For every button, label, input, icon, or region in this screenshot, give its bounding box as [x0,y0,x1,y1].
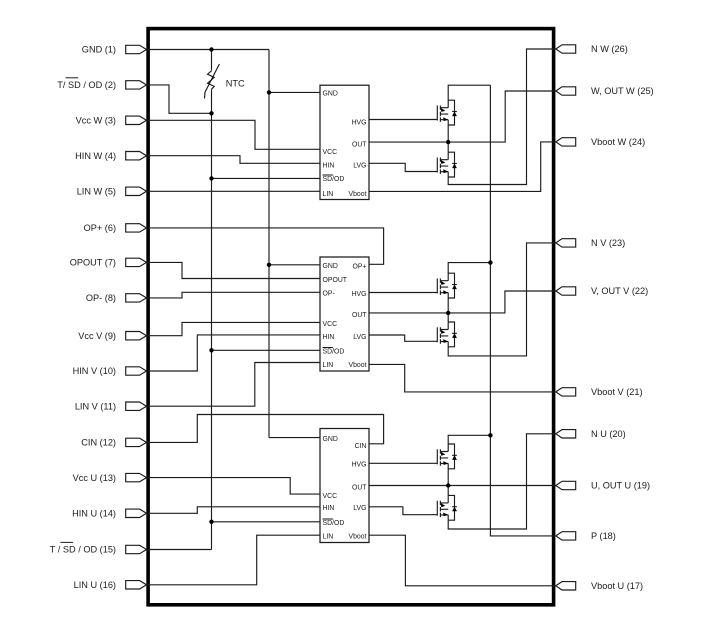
svg-text:SD/OD: SD/OD [323,520,345,527]
svg-text:LIN U (16): LIN U (16) [74,580,116,590]
svg-text:HVG: HVG [352,291,367,298]
svg-text:OUT: OUT [352,142,367,149]
svg-text:Vboot: Vboot [348,534,366,541]
svg-text:OUT: OUT [352,312,367,319]
wire Q6 source to pin 20 N U [448,434,556,529]
svg-text:LVG: LVG [353,505,366,512]
wire HIN W pin 4 to W driver HIN [146,156,320,164]
wire HIN U pin 14 to U driver HIN [146,507,320,514]
node GND / NTC top junction [209,47,213,51]
svg-text:Vcc W (3): Vcc W (3) [76,116,116,126]
svg-text:N W (26): N W (26) [591,44,628,54]
wire LVG V to Q4 gate [369,335,437,341]
svg-text:U, OUT U (19): U, OUT U (19) [591,481,650,491]
svg-text:T / SD / OD (15): T / SD / OD (15) [50,545,116,555]
wire Q4 drain to OUT V node [447,313,449,330]
wire Q3 drain to P rail [448,263,490,281]
wire LIN W pin 5 to W driver LIN [146,190,320,192]
svg-text:OP+: OP+ [353,264,367,271]
wire HVG W to Q1 gate [369,119,437,121]
svg-text:HIN: HIN [323,163,335,170]
pin CIN (12) [81,438,146,448]
pin HIN V (10) [73,366,147,376]
node SD rail to U driver [209,520,213,524]
wire LVG W to Q2 gate [369,163,437,171]
svg-text:SD/OD: SD/OD [323,176,345,183]
wire NTC top lead from GND node [211,50,213,71]
svg-text:Vboot W (24): Vboot W (24) [591,137,645,147]
svg-text:Vboot: Vboot [348,362,366,369]
transistor Q6 U low-side MOSFET with body diode [437,495,457,520]
svg-text:Vcc V (9): Vcc V (9) [78,331,116,341]
transistor Q2 W low-side MOSFET with body diode [437,152,457,177]
pin N V (23) [556,238,625,248]
svg-text:CIN: CIN [355,443,367,450]
pin P (18) [556,531,616,541]
pin V OUT V (22) [556,286,648,296]
wire GND rail to U driver GND [269,437,320,439]
svg-text:Vboot: Vboot [348,191,366,198]
wire Q1 drain to P rail [448,85,490,108]
wire Q4 source to pin 23 N V [448,243,556,356]
svg-text:LIN: LIN [323,191,334,198]
wire OUT W node to pin 25 [369,91,556,142]
svg-text:Vboot V (21): Vboot V (21) [591,387,643,397]
transistor Q3 V high-side MOSFET with body diode [437,273,457,298]
wire LIN U pin 16 to U driver LIN [146,535,320,585]
wire SD/OD vertical rail [211,89,213,549]
pin HIN U (14) [72,509,146,519]
svg-text:Vboot U (17): Vboot U (17) [591,581,643,591]
wire Vboot U to pin 17 [369,535,556,586]
wire GND rail to V driver GND [269,264,320,266]
wire Q5 drain to P rail [448,435,490,451]
wire Q1 source to OUT W node [447,120,449,142]
wire GND rail to W driver GND [269,91,320,93]
wire Q3 source to OUT V node [447,293,449,313]
pin OP+ (6) [84,223,147,233]
svg-text:GND (1): GND (1) [82,45,116,55]
wire OUT U node to pin 19 [369,485,556,487]
pin T/SD/OD (2) [57,78,146,90]
node P rail / V phase [488,260,492,264]
pin GND (1) [82,45,147,55]
svg-text:OP- (8): OP- (8) [86,293,116,303]
svg-text:OUT: OUT [352,485,367,492]
pin Vcc V (9) [78,331,146,341]
node GND rail to W driver [267,90,271,94]
svg-text:W, OUT W (25): W, OUT W (25) [591,86,654,96]
wire Vcc W pin 3 to W driver VCC [146,120,320,149]
node SD rail to V driver [209,348,213,352]
wire Q2 source to pin 26 N W [448,49,556,185]
pin Vboot U (17) [556,581,643,591]
svg-text:P (18): P (18) [591,531,616,541]
pin U OUT U (19) [556,481,650,491]
wire Vboot W to pin 24 [369,142,556,192]
svg-text:LIN: LIN [323,534,334,541]
svg-text:HIN W (4): HIN W (4) [75,151,116,161]
wire OP+ pin 6 to V driver OP+ [146,228,384,264]
wire pin 15 T/SD/OD to SD rail [146,549,212,551]
svg-text:GND: GND [323,91,338,98]
IC outline frame [148,29,553,605]
pin N W (26) [556,44,628,54]
pin OP- (8) [86,293,147,303]
pin Vcc W (3) [76,116,147,126]
svg-text:HIN U (14): HIN U (14) [72,509,116,519]
svg-text:OPOUT (7): OPOUT (7) [70,258,116,268]
pin W OUT W (25) [556,86,654,96]
svg-text:NTC: NTC [226,78,245,88]
svg-text:VCC: VCC [323,149,338,156]
svg-text:N V (23): N V (23) [591,238,625,248]
svg-text:V, OUT V (22): V, OUT V (22) [591,286,648,296]
pin N U (20) [556,429,626,439]
wire Q2 drain to OUT W node [447,142,449,160]
wire P rail to pin 18 [490,85,556,536]
svg-text:LIN: LIN [323,362,334,369]
node pin2 / NTC bottom junction [209,111,213,115]
svg-text:OP+ (6): OP+ (6) [84,223,116,233]
wire Q5 source to OUT U node [447,463,449,485]
wire HVG U to Q5 gate [369,462,437,464]
transistor Q4 V low-side MOSFET with body diode [437,322,457,347]
wire Vcc V pin 9 to V driver VCC [146,322,320,335]
svg-text:OP-: OP- [323,291,335,298]
svg-text:VCC: VCC [323,321,338,328]
wire SD rail to W driver SD/OD [212,177,321,179]
svg-text:LVG: LVG [353,334,366,341]
pin T/SD/OD (15) [50,542,147,554]
svg-text:LIN V (11): LIN V (11) [75,401,116,411]
pin OPOUT (7) [70,258,147,268]
transistor Q1 W high-side MOSFET with body diode [437,100,457,125]
transistor Q5 U high-side MOSFET with body diode [437,444,457,469]
wire Vboot V to pin 21 [369,364,556,392]
resistor NTC thermistor [205,64,246,99]
pin HIN W (4) [75,151,146,161]
svg-text:T/ SD / OD (2): T/ SD / OD (2) [57,80,116,90]
wire Q6 drain to OUT U node [447,486,449,503]
svg-text:HVG: HVG [352,120,367,127]
svg-text:VCC: VCC [323,493,338,500]
svg-text:GND: GND [323,263,338,270]
svg-text:LVG: LVG [353,163,366,170]
svg-text:N U (20): N U (20) [591,429,626,439]
wire OUT V node to pin 22 [369,291,556,313]
wire SD rail to U driver SD/OD [212,521,321,523]
wire OPOUT pin 7 to V driver OPOUT [146,262,320,278]
svg-text:HIN V (10): HIN V (10) [73,366,116,376]
svg-text:GND: GND [323,436,338,443]
svg-text:OPOUT: OPOUT [323,277,348,284]
wire Vcc U pin 13 to U driver VCC [146,478,320,495]
svg-text:HIN: HIN [323,505,335,512]
svg-text:HVG: HVG [352,462,367,469]
pin Vcc U (13) [73,473,147,483]
wire pin 2 T/SD/OD to NTC bottom [146,85,212,113]
svg-text:SD/OD: SD/OD [323,349,345,356]
pin LIN W (5) [77,187,147,197]
wire LVG U to Q6 gate [369,507,437,515]
gate driver block W (high/low side driver) [320,85,369,199]
node OUT W [446,140,450,144]
wire SD rail to V driver SD/OD [212,349,321,351]
pin LIN U (16) [74,580,147,590]
svg-text:CIN (12): CIN (12) [81,438,116,448]
node OUT U [446,483,450,487]
svg-text:LIN W (5): LIN W (5) [77,187,116,197]
pin Vboot V (21) [556,387,643,397]
wire HVG V to Q3 gate [369,292,437,294]
pin LIN V (11) [75,401,147,411]
wire GND net from pin 1 to GND rail [146,49,269,51]
wire HIN V pin 10 to V driver HIN [146,335,320,371]
node GND rail to V driver [267,263,271,267]
wire CIN pin 12 to U driver CIN [146,415,384,444]
wire GND vertical rail [268,50,270,438]
wire OP- pin 8 to V driver OP- [146,292,320,298]
gate driver block V (high/low side driver + op-amp) [320,257,369,371]
node SD rail to W driver [209,176,213,180]
wire LIN V pin 11 to V driver LIN [146,363,320,407]
node P rail / U phase [488,433,492,437]
node OUT V [446,311,450,315]
svg-text:HIN: HIN [323,334,335,341]
gate driver block U (high/low side driver) [320,429,369,543]
svg-text:Vcc U (13): Vcc U (13) [73,473,116,483]
pin Vboot W (24) [556,137,645,147]
